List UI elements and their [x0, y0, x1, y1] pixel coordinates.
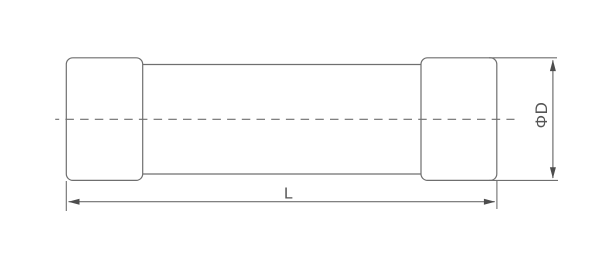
centerline (dashed axis): [55, 118, 514, 120]
arrowhead top (ΦD): [550, 60, 556, 71]
dimension line L: [69, 201, 495, 203]
arrowhead right (L): [484, 199, 495, 205]
svg-text:L: L: [284, 186, 293, 203]
svg-text:ΦD: ΦD: [532, 102, 551, 129]
body tube (barrel): [143, 65, 421, 175]
arrowhead left (L): [68, 199, 79, 205]
extension line right (L dimension): [496, 181, 498, 209]
extension line left (L dimension): [65, 181, 67, 211]
dimension line ΦD: [552, 60, 554, 178]
left end cap: [66, 58, 142, 181]
right end cap: [421, 58, 497, 181]
extension line bottom (ΦD dimension): [489, 179, 558, 181]
arrowhead bottom (ΦD): [550, 167, 556, 178]
extension line top (ΦD dimension): [489, 57, 557, 59]
